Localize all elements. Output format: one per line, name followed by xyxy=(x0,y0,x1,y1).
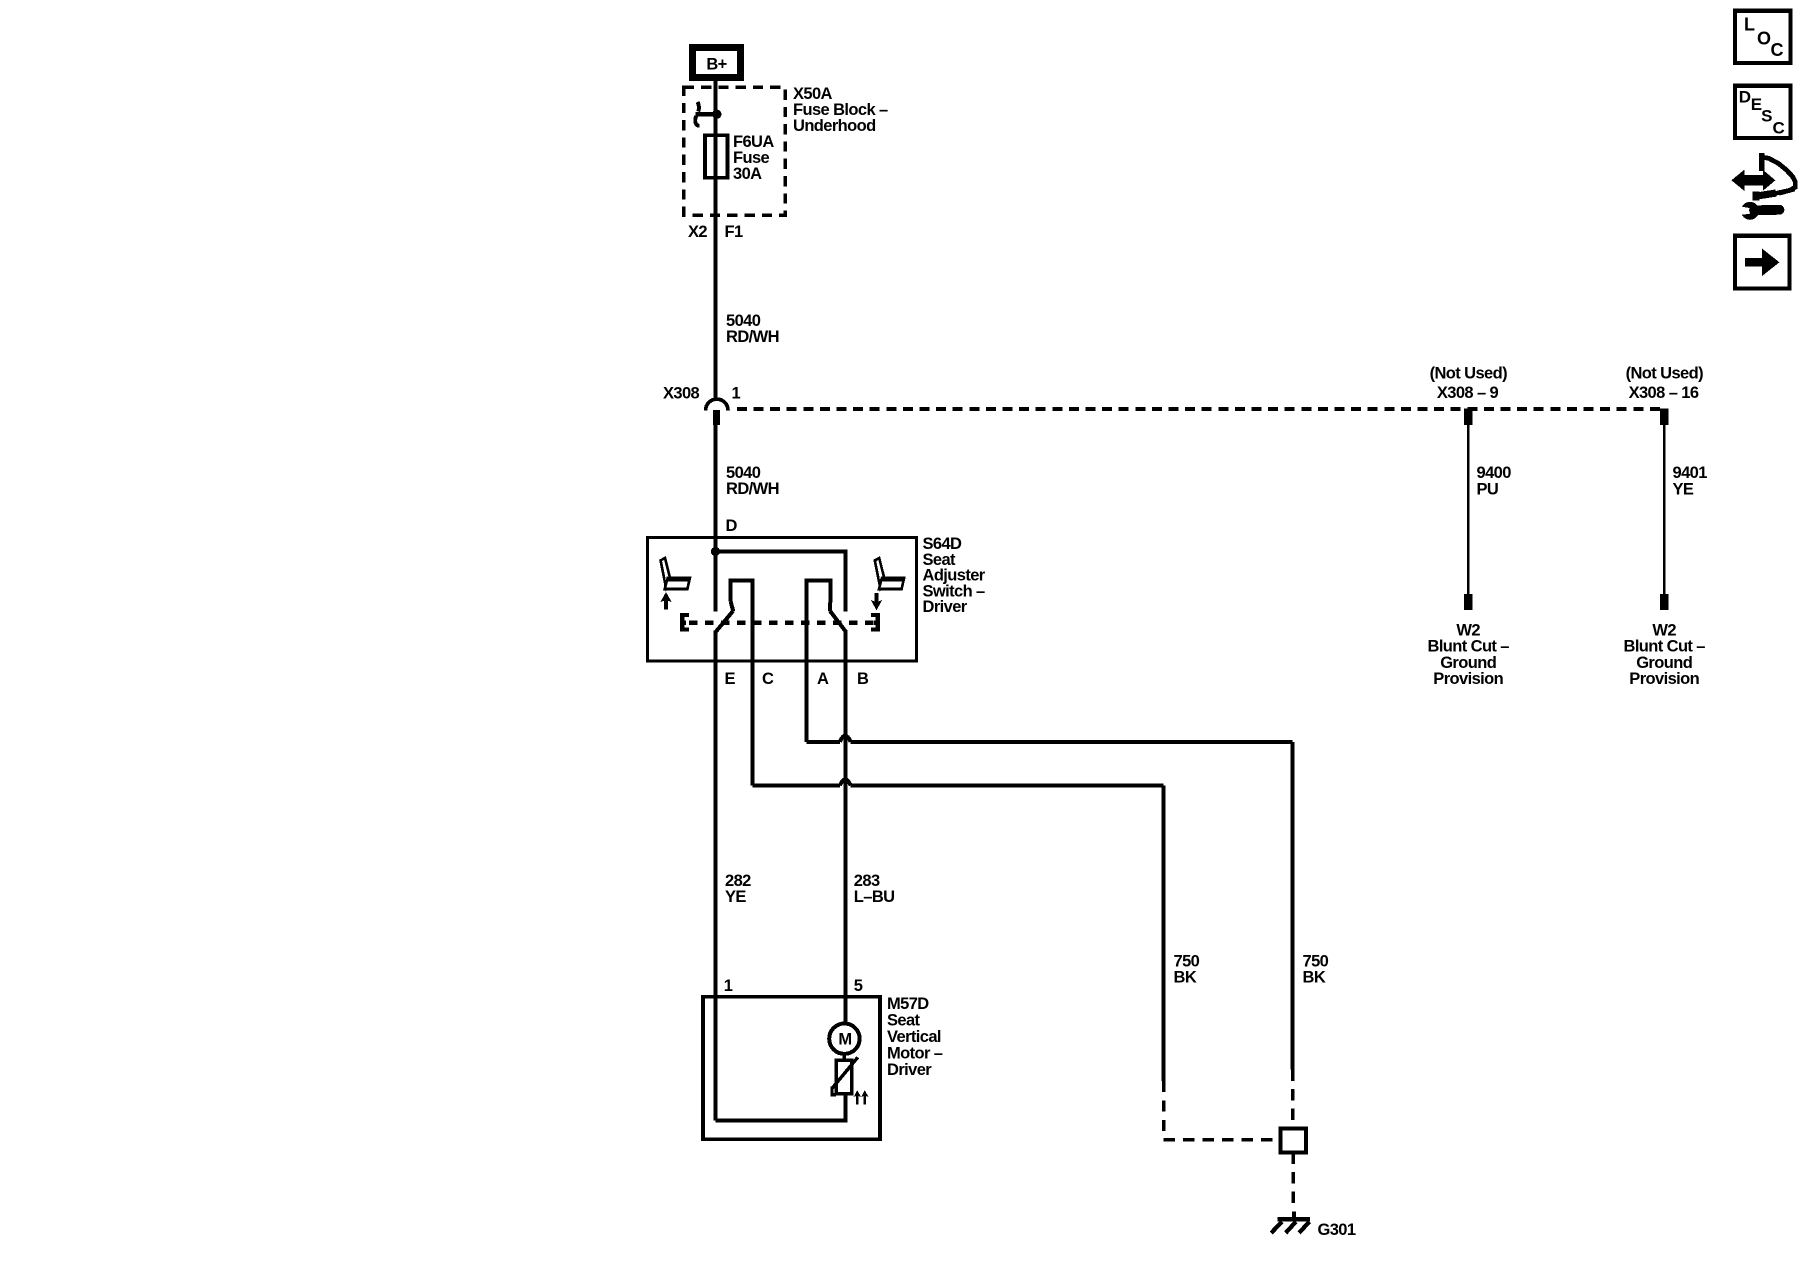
svg-text:C: C xyxy=(1773,118,1785,137)
DESC button xyxy=(1735,86,1791,138)
right switch blade xyxy=(830,611,846,632)
svg-text:F1: F1 xyxy=(725,223,743,241)
junction node in switch xyxy=(711,547,720,556)
svg-text:YE: YE xyxy=(1673,480,1694,498)
svg-text:BK: BK xyxy=(1303,969,1326,987)
dashed harness line from X308 to the right xyxy=(737,407,1665,411)
wire A horizontal run with hop xyxy=(807,736,1293,742)
svg-text:(Not Used): (Not Used) xyxy=(1430,365,1508,383)
svg-text:X308 – 16: X308 – 16 xyxy=(1629,384,1699,402)
not-used drop X308-16 wire xyxy=(1663,425,1666,594)
svg-text:A: A xyxy=(817,670,829,688)
svg-text:Seat: Seat xyxy=(887,1012,921,1030)
motor internal wire path xyxy=(716,1094,846,1121)
svg-text:G301: G301 xyxy=(1318,1221,1356,1239)
battery B+ terminal box xyxy=(693,48,741,78)
splice node xyxy=(1281,1129,1307,1153)
label X50A Fuse Block - Underhood xyxy=(793,85,888,135)
svg-text:M: M xyxy=(838,1031,851,1049)
double up arrows xyxy=(854,1090,869,1104)
wire A down from chimney xyxy=(805,618,809,742)
svg-text:Motor –: Motor – xyxy=(887,1045,943,1063)
motor M circle xyxy=(829,1023,859,1053)
not-used drop X308-9 pin top xyxy=(1464,409,1472,425)
up arrow xyxy=(661,593,671,609)
svg-text:Driver: Driver xyxy=(923,598,968,616)
svg-text:Underhood: Underhood xyxy=(793,117,876,135)
svg-text:Vertical: Vertical xyxy=(887,1028,941,1046)
wire C horizontal run with hop xyxy=(753,779,1164,785)
connector X308 half circle xyxy=(706,399,728,410)
wire E from switch blade to motor pin 1 xyxy=(714,631,718,1121)
label W2 Blunt Cut - Ground Provision (left) xyxy=(1428,622,1510,689)
label (Not Used) X308 - 16 xyxy=(1626,365,1704,402)
wire from B+ down through fuse block xyxy=(714,81,718,399)
svg-text:RD/WH: RD/WH xyxy=(726,328,779,346)
svg-text:C: C xyxy=(762,670,774,688)
left actuator bracket xyxy=(680,613,689,632)
seat down icon xyxy=(875,558,904,589)
motor M57D box xyxy=(703,997,880,1139)
LOC button xyxy=(1735,11,1791,63)
down arrow xyxy=(872,593,882,609)
label W2 Blunt Cut - Ground Provision (right) xyxy=(1624,622,1706,689)
fuse block X50A dashed box xyxy=(684,87,785,215)
svg-text:X308 – 9: X308 – 9 xyxy=(1437,384,1499,402)
svg-text:X2: X2 xyxy=(688,223,707,241)
wire 750 BK left vertical xyxy=(1162,786,1166,1081)
wire label 750 BK (right) xyxy=(1303,953,1329,987)
svg-text:1: 1 xyxy=(724,977,733,995)
connector X308 pin xyxy=(713,410,720,425)
harness routing icon (double arrow, outline, wrench) xyxy=(1733,153,1796,220)
svg-text:O: O xyxy=(1757,28,1771,48)
svg-text:B: B xyxy=(857,670,869,688)
svg-text:BK: BK xyxy=(1174,969,1197,987)
switch S64D box xyxy=(648,538,917,662)
wire label 9401 YE xyxy=(1673,464,1708,498)
svg-text:E: E xyxy=(725,670,736,688)
svg-text:1: 1 xyxy=(732,385,741,403)
wire label 283 L-BU xyxy=(854,872,895,906)
svg-text:D: D xyxy=(1739,87,1751,106)
wire 750 BK right vertical xyxy=(1291,742,1295,1070)
bus bar tap connector inside fuse block xyxy=(695,102,721,126)
wire C down from chimney xyxy=(751,618,755,786)
wire from X308 down to switch xyxy=(714,424,718,612)
svg-text:M57D: M57D xyxy=(887,995,929,1013)
wire label 5040 RD/WH (upper) xyxy=(726,312,779,346)
svg-text:YE: YE xyxy=(725,888,746,906)
seat up icon xyxy=(661,558,690,589)
svg-text:Driver: Driver xyxy=(887,1061,932,1079)
svg-text:30A: 30A xyxy=(733,165,762,183)
wire 750 BK right dashed to splice xyxy=(1291,1070,1295,1129)
wire label 282 YE xyxy=(725,872,751,906)
fuse F6UA symbol xyxy=(705,135,728,178)
wire B from switch blade down to motor xyxy=(844,631,848,1025)
svg-text:L–BU: L–BU xyxy=(854,888,895,906)
left contact housing (chimney) xyxy=(731,580,753,620)
not-used drop X308-16 blunt end xyxy=(1660,594,1668,610)
svg-text:L: L xyxy=(1744,15,1755,35)
svg-text:PU: PU xyxy=(1477,480,1499,498)
wire from junction to B-side contact xyxy=(716,552,846,612)
wire label 750 BK (left) xyxy=(1174,953,1200,987)
not-used drop X308-9 wire xyxy=(1467,425,1470,594)
svg-text:X308: X308 xyxy=(663,385,700,403)
wire 750 BK left dashed to splice xyxy=(1164,1081,1281,1140)
label F6UA Fuse 30A xyxy=(733,133,774,183)
not-used drop X308-16 pin top xyxy=(1660,409,1668,425)
right contact housing (chimney) xyxy=(807,580,831,620)
motor thermal protector xyxy=(832,1054,858,1095)
svg-text:B+: B+ xyxy=(706,56,726,74)
svg-text:C: C xyxy=(1771,40,1784,60)
left switch blade xyxy=(716,611,734,632)
svg-text:D: D xyxy=(726,517,738,535)
svg-text:S: S xyxy=(1761,106,1772,125)
dashed wire from splice to ground xyxy=(1292,1153,1296,1204)
svg-text:Provision: Provision xyxy=(1629,670,1699,688)
forward arrow button xyxy=(1735,236,1790,289)
svg-text:Provision: Provision xyxy=(1433,670,1503,688)
svg-text:(Not Used): (Not Used) xyxy=(1626,365,1704,383)
label S64D Seat Adjuster Switch - Driver xyxy=(923,535,986,616)
svg-text:5: 5 xyxy=(854,977,863,995)
not-used drop X308-9 blunt end xyxy=(1464,594,1472,610)
wire label 9400 PU xyxy=(1477,464,1512,498)
switch dashed actuator line xyxy=(689,621,878,626)
label M57D Seat Vertical Motor - Driver xyxy=(887,995,943,1079)
wire label 5040 RD/WH (lower) xyxy=(726,464,779,498)
svg-text:RD/WH: RD/WH xyxy=(726,480,779,498)
ground G301 symbol xyxy=(1271,1211,1310,1233)
label (Not Used) X308 - 9 xyxy=(1430,365,1508,402)
right actuator bracket xyxy=(871,613,880,632)
